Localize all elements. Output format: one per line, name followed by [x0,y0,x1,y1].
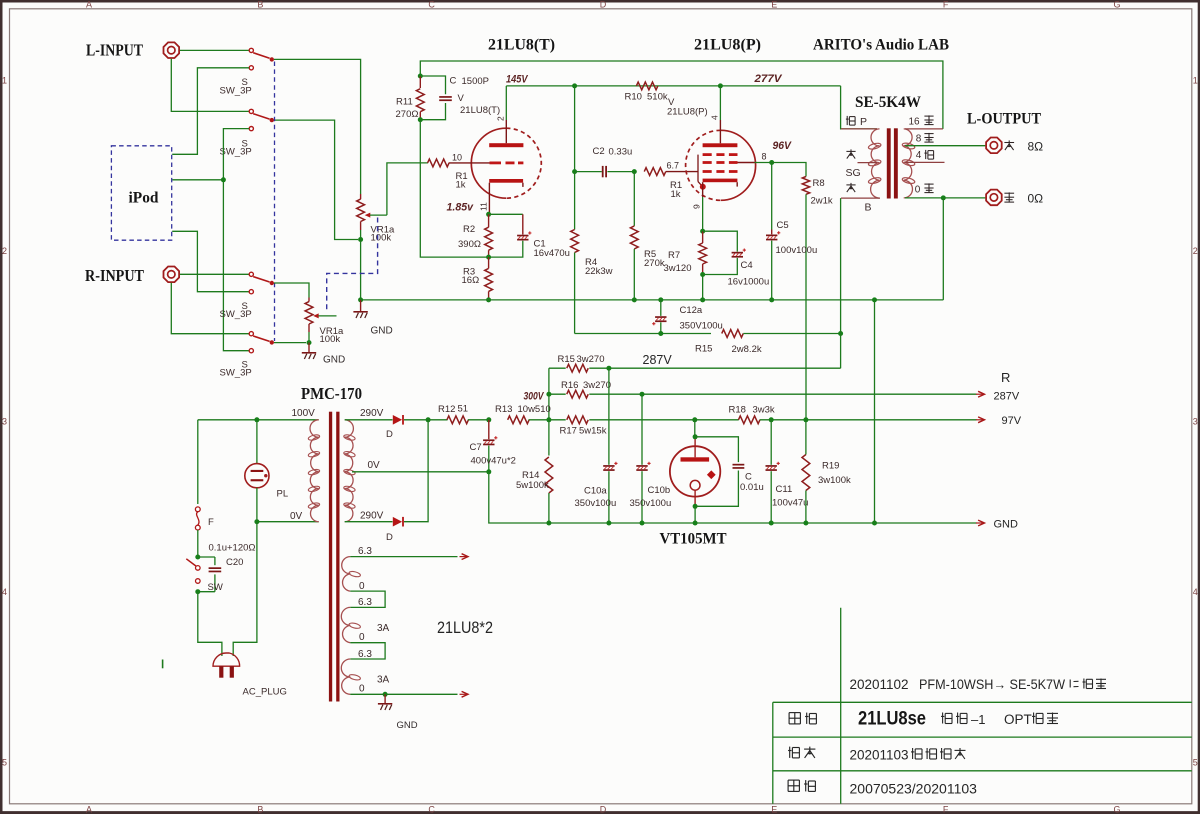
wire jack R to SW3 [180,273,249,275]
svg-text:0.1u+120Ω: 0.1u+120Ω [209,543,256,554]
resistor R16 3w270 [549,390,977,398]
svg-text:5: 5 [1193,758,1198,768]
svg-text:6.3: 6.3 [358,649,372,660]
capacitor C10b 350v100u [636,394,650,523]
svg-text:20070523/20201103: 20070523/20201103 [850,781,978,797]
wire 290V bottom row [345,521,393,523]
fuse F [195,507,200,530]
node R3 at GND bus [486,297,491,302]
wire iPod lower to R SW1 pin2 [172,231,249,291]
svg-text:350v100u: 350v100u [575,498,617,509]
svg-text:L-INPUT: L-INPUT [86,41,143,60]
svg-text:C20: C20 [226,557,243,568]
wire 145V anode row [506,85,840,87]
svg-text:20201102: 20201102 [850,677,909,692]
svg-text:D: D [386,429,393,440]
svg-text:22k3w: 22k3w [585,266,613,277]
svg-text:R15: R15 [695,344,712,355]
node GND bus left end [358,297,363,302]
svg-text:G: G [1113,804,1120,814]
node R19 top [803,417,808,422]
ground symbol at VR1a-L [360,300,362,311]
svg-text:2: 2 [1193,246,1198,256]
svg-text:F: F [943,804,949,814]
svg-text:0V: 0V [368,460,381,471]
svg-text:290V: 290V [360,511,384,522]
svg-text:0.33u: 0.33u [609,146,633,157]
wire SW1 arm to VR1a-L top [274,59,361,194]
capacitor C4 16v1000u [703,231,746,274]
svg-text:3: 3 [2,417,7,427]
wire R11 bottom to cathode node [420,120,488,257]
svg-text:3w120: 3w120 [664,263,692,274]
svg-text:C: C [450,76,457,87]
svg-text:PL: PL [277,489,289,500]
svg-text:3: 3 [1193,417,1198,427]
switch S SW_3P (L lower) [249,109,274,130]
transformer T2 SE-5K4W core [887,128,898,198]
capacitor C2 0.33u [575,166,634,177]
svg-text:SW_3P: SW_3P [220,309,252,320]
wire 0-3 out [350,693,457,695]
svg-text:R18: R18 [729,405,746,416]
svg-text:ARITO's Audio LAB: ARITO's Audio LAB [813,37,949,54]
label red aka [846,150,855,152]
svg-text:287V: 287V [994,391,1020,403]
svg-text:3A: 3A [377,675,390,686]
wire SW1 pin2 to iPod [172,68,249,155]
svg-text:20201103: 20201103 [850,748,909,763]
capacitor C11 100v47u [766,420,780,523]
wire raw B+ row [575,333,711,335]
wire diode bottom out [404,420,428,522]
svg-text:100V: 100V [292,408,316,419]
svg-text:51: 51 [458,404,469,415]
resistor R14 5w100k [545,420,553,523]
node C7 bottom at 0V [486,469,491,474]
node gnd row R19 [803,521,808,526]
wire SW4 arm to VR1a-R bottom [274,342,306,344]
potentiometer VR1a-R 100k [305,298,336,342]
svg-text:R8: R8 [813,178,825,189]
wire SW2 pin2 down to R switch pin2 [223,129,249,351]
wire R18 out to right [760,419,977,421]
title note 20201102 PFM-10WSH to SE-5K7W [850,677,1107,692]
svg-text:16Ω: 16Ω [462,275,480,286]
potentiometer VR1a-L 100k [357,194,387,238]
node R7 at GND bus [700,297,705,302]
capacitor C5 100v100u [766,163,780,300]
resistor R5 270k [630,172,638,300]
svg-text:290V: 290V [360,408,384,419]
wire GND bus [361,299,944,301]
svg-text:277V: 277V [753,73,783,85]
wire VR1a-L bottom to GND bus [360,240,362,300]
svg-text:C: C [745,472,752,483]
node VT105 anode [693,434,698,439]
svg-text:5: 5 [2,758,7,768]
svg-text:G: G [1113,0,1120,9]
svg-text:P: P [860,116,867,128]
resistor R7 3w120 [699,231,707,274]
svg-text:GND: GND [397,720,418,731]
tube U1 21LU8(T) triode [449,120,542,214]
svg-text:C: C [428,0,435,9]
wire cathode to C1 [489,213,523,215]
resistor R17 5w15k [567,416,589,424]
svg-text:2: 2 [2,246,7,256]
svg-text:100k: 100k [371,233,392,244]
wire 97V row R17 [549,419,566,421]
svg-text:R: R [1001,370,1010,385]
wire SW to plug left [198,592,222,656]
svg-text:C4: C4 [741,260,753,271]
node gnd tie at bus [872,297,877,302]
capacitor C10a 350v100u [603,368,617,523]
svg-text:C11: C11 [776,484,793,495]
svg-text:6.3: 6.3 [358,546,372,557]
resistor R15 2w8.2k [722,330,841,338]
svg-text:4: 4 [2,587,7,597]
wire 96V to R8 [772,163,806,177]
wire primary 0V row [257,521,319,523]
PMC primary winding [308,420,320,522]
node gnd row tie [872,521,877,526]
wire R17 to R18 [589,419,738,421]
resistor R3 16ohm [485,257,493,300]
node C2 output / R5 top [632,169,637,174]
resistor R18 3w3k [738,416,760,424]
svg-text:0: 0 [359,684,365,695]
vertical 300V node [548,368,550,394]
svg-text:R7: R7 [668,250,680,261]
resistor R2 390ohm [485,214,493,257]
svg-text:VT105MT: VT105MT [660,531,727,548]
wire P anode riser [719,86,721,120]
svg-text:10: 10 [452,153,462,163]
svg-text:B: B [257,804,263,814]
resistor R8 2w1k [802,177,809,420]
label P terminal orange [846,116,848,125]
pot gang link dashed [327,218,378,313]
svg-text:21LU8(T): 21LU8(T) [488,37,555,54]
svg-text:1: 1 [1193,76,1198,86]
wire screen to 96V node [738,162,755,164]
wire 0V center tap [352,471,489,473]
wire diode top out [404,419,428,421]
label kuro 0ohm [1004,192,1014,194]
resistor R10 510k [636,82,658,90]
svg-text:SW_3P: SW_3P [220,147,252,158]
PMC heater winding 3 [341,659,361,694]
wire 0-1 bracket [350,591,385,607]
svg-text:2: 2 [496,116,506,121]
node gnd row C11 [769,521,774,526]
arrow heater 1 [460,556,468,558]
node R11 top [418,74,423,79]
arrow heater 2 [460,693,468,695]
connector J3 output 8ohm jack [986,138,1002,154]
svg-text:SW: SW [208,582,223,593]
svg-text:100k: 100k [320,334,341,345]
wire jack L to SW1 [180,49,249,51]
svg-text:3w270: 3w270 [583,380,611,391]
resistor R4 22k3w [571,172,579,334]
svg-text:C5: C5 [777,220,789,231]
svg-text:8: 8 [762,152,767,162]
svg-text:3w270: 3w270 [577,354,605,365]
node 145V rail branch [572,83,577,88]
svg-text:E: E [771,804,777,814]
svg-text:D: D [386,532,393,543]
node T cathode junction [486,212,491,217]
svg-text:16: 16 [908,117,920,128]
node C12a bottom [658,331,663,336]
switch S SW_3P (L upper) [249,48,274,70]
PMC heater winding 2 [341,607,361,642]
resistor R11 270ohm [416,76,424,120]
svg-text:2w8.2k: 2w8.2k [732,344,762,355]
svg-text:R17: R17 [560,426,577,437]
connector J4 output 0ohm jack [986,190,1002,206]
ground symbol at VR1a-R [308,343,310,352]
svg-text:3A: 3A [377,623,390,634]
svg-text:16v470u: 16v470u [534,248,570,259]
ground symbol heater [384,694,386,703]
node C2 input [572,169,577,174]
switch SW mains [186,559,200,584]
svg-text:5w100k: 5w100k [516,480,549,491]
svg-text:SE-5K4W: SE-5K4W [855,94,921,111]
wire 0V down to PSU gnd row [489,472,549,523]
connector J2 R-INPUT jack [164,267,180,283]
node 300V [546,392,551,397]
svg-text:0: 0 [359,581,365,592]
wire VT105 cathode to gnd row [694,506,696,523]
node 0-tap junction [941,195,946,200]
svg-text:D: D [600,804,607,814]
node PL top [254,417,259,422]
svg-text:F: F [943,0,949,9]
phase mark [162,660,164,669]
label aka 8ohm [1004,142,1014,144]
svg-text:21LU8se: 21LU8se [858,709,926,730]
resistor R1 1k (P grid stopper) [644,168,666,176]
svg-text:4: 4 [710,115,720,120]
node B+ raw at B wire [838,331,843,336]
svg-text:6.7: 6.7 [667,160,680,170]
svg-text:100v100u: 100v100u [776,245,818,256]
node C7 top [486,417,491,422]
svg-text:21LU8(P): 21LU8(P) [694,37,761,54]
svg-text:4: 4 [1193,587,1198,597]
wire 300V down through R14 [548,394,550,420]
PMC heater winding 1 [342,557,361,592]
wire R1P to grid bracket [666,171,698,173]
node 287V at C10a [606,366,611,371]
svg-text:A: A [86,804,92,814]
wire primary 100V row [198,419,319,421]
wire SW2 arm to VR1a-L bottom [274,120,358,239]
iPod source box [111,146,171,240]
wire 8-tap to L-OUTPUT hot [905,145,985,147]
node gnd row C10a [606,521,611,526]
svg-text:300V: 300V [524,391,545,403]
wire PL leg to plug right [233,522,257,656]
wire PSU gnd row [549,522,977,524]
svg-text:C: C [428,804,435,814]
arrow 97V right [976,419,984,421]
node heater gnd [383,692,388,697]
svg-text:GND: GND [994,519,1019,531]
svg-text:270k: 270k [644,258,665,269]
svg-text:0V: 0V [290,511,303,522]
svg-text:iPod: iPod [129,190,159,207]
capacitor C12a 350V100u [652,297,666,333]
svg-text:R10: R10 [625,92,642,103]
PMC HV secondary winding [343,420,355,522]
resistor R13 10w510 [508,416,549,424]
node gnd row VT105 [693,521,698,526]
node P cathode junction [700,229,705,234]
svg-text:E: E [771,0,777,9]
node C5 at GND bus [769,297,774,302]
svg-text:350V100u: 350V100u [680,321,723,332]
svg-text:9: 9 [692,204,702,209]
node iPod branch junction [221,177,226,182]
OPT primary winding [841,129,881,198]
svg-text:R2: R2 [463,224,475,235]
node R11 bottom [418,117,423,122]
wire VR1a-L wiper to R1 grid [387,163,428,215]
tube U3 VT105MT regulator [670,437,720,507]
connector J1 L-INPUT jack [164,42,180,58]
diode D top [393,415,402,425]
node snubber top [195,555,200,560]
svg-text:1.85v: 1.85v [447,202,474,214]
wire gnd tie vertical [874,300,876,523]
svg-text:SW_3P: SW_3P [220,86,252,97]
switch S SW_3P (R upper) [249,272,274,294]
node VR1a-L bottom [358,237,363,242]
svg-text:R11: R11 [396,97,413,108]
node C11 top [769,417,774,422]
node R2 bottom junction [486,255,491,260]
svg-text:400v47u*2: 400v47u*2 [471,455,516,466]
svg-text:3w3k: 3w3k [753,405,775,416]
capacitor C 0.01u [695,437,744,507]
node 96V [769,160,774,165]
wire 0-2 bracket [350,643,385,659]
svg-text:21LU8(T): 21LU8(T) [460,105,500,116]
svg-text:16v1000u: 16v1000u [728,277,770,288]
node R16 output at C10b [640,392,645,397]
svg-text:21LU8(P): 21LU8(P) [667,107,708,118]
svg-text:C12a: C12a [680,305,703,316]
svg-text:AC_PLUG: AC_PLUG [243,687,287,698]
label brown cha [846,184,855,186]
svg-text:A: A [86,0,92,9]
wire iPod mid to junction [172,179,223,181]
svg-text:5w15k: 5w15k [579,426,607,437]
svg-text:97V: 97V [1002,415,1022,427]
connector AC_PLUG [213,653,240,678]
svg-text:510k: 510k [647,92,668,103]
svg-text:1k: 1k [671,189,681,200]
node P anode riser top [718,83,723,88]
svg-text:0Ω: 0Ω [1028,192,1044,206]
node R5 at GND bus [632,297,637,302]
switch S SW_3P (R lower) [249,332,274,353]
title block left line [772,702,774,804]
wire VT105 anode to 97V row [694,420,696,437]
transformer T1 PMC-170 core [329,412,340,702]
capacitor C1 16v470u [489,214,532,257]
wire fuse to SW node [197,530,199,557]
svg-text:R13: R13 [495,404,512,415]
resistor R1 1k (T grid stopper) [428,159,450,167]
wire jack L down to SW2 pin [171,59,249,112]
wire 0-tap to GND bus [942,198,944,300]
svg-text:96V: 96V [773,140,793,152]
svg-text:C7: C7 [470,442,482,453]
svg-text:6.3: 6.3 [358,597,372,608]
title row created [788,747,965,763]
node VT105 cathode junction [693,504,698,509]
svg-text:–1: –1 [971,712,985,727]
wire 287V row (B+ after R15) [549,367,566,369]
svg-text:1500P: 1500P [462,76,489,87]
wire 277V to OPT primary P [841,86,877,129]
svg-text:C10a: C10a [584,486,607,497]
svg-text:SG: SG [846,167,861,179]
svg-text:145V: 145V [506,74,529,86]
svg-text:B: B [865,202,872,214]
wire P cathode down [702,197,704,231]
svg-text:L-OUTPUT: L-OUTPUT [967,111,1041,128]
wire feedback rail 16-tap to R11 [420,61,943,129]
svg-text:GND: GND [371,326,393,337]
svg-text:R16: R16 [561,380,578,391]
svg-text:D: D [600,0,607,9]
wire 0-tap to L-OUTPUT cold [905,197,985,199]
wire OPT B terminal down [840,198,842,368]
node PL bottom [254,519,259,524]
title block column line [840,608,842,804]
resistor R12 51 [428,416,489,424]
svg-text:R15: R15 [558,354,575,365]
svg-text:100v47u: 100v47u [772,498,808,509]
arrow GND right [976,522,984,524]
wire R15 to B+ node [589,367,840,369]
arrow 287V right [976,393,984,395]
svg-text:OPT: OPT [1004,712,1032,727]
node R14 at gnd row [546,521,551,526]
svg-text:SW_3P: SW_3P [220,368,252,379]
wire jack R down to SW4 pin [171,283,249,334]
svg-text:PFM-10WSH→ SE-5K7W: PFM-10WSH→ SE-5K7W [919,677,1065,692]
node gnd row C10b [640,521,645,526]
wire SW3 arm to VR1a-R top [274,283,309,298]
wire mains left leg [197,420,199,504]
node snubber bottom [195,589,200,594]
svg-text:0.01u: 0.01u [740,482,764,493]
svg-text:11: 11 [479,202,489,211]
diode D bottom [393,517,402,527]
svg-text:C2: C2 [593,146,605,157]
svg-text:8: 8 [916,134,922,145]
svg-text:3w100k: 3w100k [818,475,851,486]
